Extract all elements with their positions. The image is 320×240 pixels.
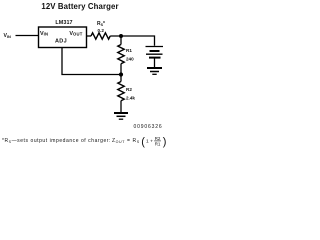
wire ADJ pin down and right — [62, 48, 121, 75]
ground (below R2) — [114, 113, 128, 119]
svg-text:RS*: RS* — [97, 21, 105, 27]
wire VIN input — [16, 35, 39, 37]
wire R2 to ground — [120, 101, 122, 113]
svg-text:0.2: 0.2 — [98, 28, 105, 33]
battery BT1 — [146, 47, 164, 58]
svg-text:R1: R1 — [155, 142, 161, 147]
svg-text:ADJ: ADJ — [55, 38, 67, 44]
wire R1 to junction — [120, 64, 122, 75]
svg-text:12V Battery Charger: 12V Battery Charger — [41, 2, 118, 11]
wire VOUT to Rs — [87, 35, 92, 37]
resistor Rs 0.2 (horizontal zigzag) — [91, 33, 110, 39]
wire battery to ground — [154, 59, 156, 68]
svg-text:VIN: VIN — [40, 31, 48, 37]
svg-text:R1: R1 — [126, 48, 132, 53]
svg-text:00906326: 00906326 — [133, 124, 162, 130]
ground (battery) — [147, 68, 162, 74]
svg-text:1 +: 1 + — [146, 139, 153, 145]
svg-text:240: 240 — [126, 56, 134, 61]
svg-text:): ) — [163, 136, 167, 148]
svg-text:LM317: LM317 — [55, 20, 72, 26]
svg-text:R2: R2 — [155, 136, 161, 141]
resistor R2 2.4k (vertical zigzag) — [118, 82, 124, 101]
wire dot to R1 — [120, 36, 122, 45]
wire Rs to battery corner — [110, 36, 154, 46]
regulator U1 LM317 box — [39, 27, 87, 48]
wire junction to R2 — [120, 75, 122, 82]
svg-text:*RS—sets output impedance of c: *RS—sets output impedance of charger: — [2, 138, 111, 144]
svg-text:VIN: VIN — [4, 33, 12, 39]
svg-text:R2: R2 — [126, 87, 132, 92]
node junction dot ADJ / R1 / R2 — [119, 72, 123, 76]
svg-text:ZOUT = RS: ZOUT = RS — [112, 138, 140, 144]
node junction dot at VOUT net / R1 — [119, 34, 123, 38]
resistor R1 240 (vertical zigzag) — [118, 45, 124, 64]
svg-text:(: ( — [141, 136, 145, 148]
svg-text:VOUT: VOUT — [69, 31, 82, 37]
svg-text:2.4k: 2.4k — [126, 95, 135, 100]
